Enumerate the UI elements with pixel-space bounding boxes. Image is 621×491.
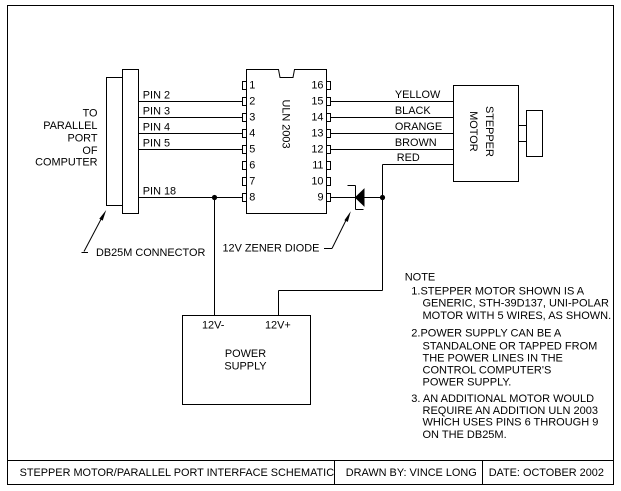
wire YELLOW U1 pin 15 to stepper motor	[331, 101, 454, 103]
PS1 label POWER SUPPLY	[224, 348, 267, 372]
U1 pin number 3	[249, 112, 255, 124]
svg-text:DRAWN BY: VINCE LONG: DRAWN BY: VINCE LONG	[346, 467, 477, 479]
diode D1 12V zener cathode bar	[348, 186, 364, 210]
wire label RED	[397, 152, 420, 164]
U1 pin 4 lead	[243, 130, 247, 138]
U1 pin number 11	[312, 160, 323, 172]
U1 pin 11 lead	[327, 162, 331, 170]
notes heading NOTE	[405, 271, 436, 283]
wire zener to junction node	[364, 197, 383, 199]
wire RED 12V+ to stepper motor	[383, 164, 454, 166]
U1 pin number 15	[311, 96, 323, 108]
U1 pin 3 lead	[243, 114, 247, 122]
junction node on PIN18 wire	[212, 195, 217, 200]
svg-text:11: 11	[312, 160, 323, 172]
svg-text:STEPPER: STEPPER	[483, 106, 495, 157]
wire 12V- drop from PIN18 to power supply	[214, 198, 216, 316]
svg-text:POWER SUPPLY.: POWER SUPPLY.	[423, 377, 512, 389]
U1 pin number 10	[311, 176, 323, 188]
U1 pin number 16	[311, 80, 323, 92]
svg-text:12: 12	[311, 144, 323, 156]
svg-text:PORT: PORT	[67, 133, 97, 145]
stepper motor M1 box	[454, 86, 519, 182]
wire PIN4 connector to U1 pin 4	[139, 133, 243, 135]
node label TO PARALLEL PORT OF COMPUTER	[35, 108, 98, 169]
wire 12V+ horizontal run	[279, 290, 383, 292]
svg-text:9: 9	[317, 192, 323, 204]
net label PIN 3	[143, 106, 170, 118]
svg-text:WHICH USES PINS 6 THROUGH 9: WHICH USES PINS 6 THROUGH 9	[423, 417, 599, 429]
leader arrow to zener diode	[324, 211, 351, 248]
wire BLACK U1 pin 14 to stepper motor	[331, 117, 454, 119]
wire label ORANGE	[395, 121, 442, 133]
svg-text:12V+: 12V+	[265, 320, 291, 332]
title block divider line	[8, 461, 614, 485]
svg-text:SUPPLY: SUPPLY	[224, 360, 267, 372]
note 2 line 2	[423, 340, 598, 352]
svg-text:RED: RED	[397, 152, 420, 164]
svg-text:MOTOR WITH 5 WIRES, AS SHOWN.: MOTOR WITH 5 WIRES, AS SHOWN.	[423, 310, 612, 322]
svg-text:POWER: POWER	[225, 348, 266, 360]
svg-text:ULN 2003: ULN 2003	[280, 99, 292, 148]
U1 pin number 14	[311, 112, 323, 124]
U1 pin number 12	[311, 144, 323, 156]
svg-text:10: 10	[311, 176, 323, 188]
svg-text:PIN 2: PIN 2	[143, 90, 170, 102]
svg-text:5: 5	[249, 144, 255, 156]
U1 value label ULN 2003	[280, 99, 292, 148]
title block drawn by	[346, 467, 477, 479]
U1 pin number 8	[249, 192, 255, 204]
svg-text:TO: TO	[83, 108, 98, 120]
svg-text:NOTE: NOTE	[405, 271, 436, 283]
U1 pin number 4	[249, 128, 255, 140]
net label PIN 18	[143, 185, 176, 197]
svg-text:MOTOR: MOTOR	[467, 111, 479, 151]
U1 pin 10 lead	[327, 178, 331, 186]
U1 pin number 6	[249, 160, 255, 172]
U1 pin number 9	[317, 192, 323, 204]
svg-text:ORANGE: ORANGE	[395, 121, 442, 133]
leader arrow to DB25M connector	[82, 210, 107, 253]
wire U1 pin 9 to zener anode	[331, 197, 356, 199]
svg-text:CONTROL COMPUTER'S: CONTROL COMPUTER'S	[423, 364, 552, 376]
label DB25M CONNECTOR	[96, 247, 205, 259]
svg-text:BROWN: BROWN	[395, 137, 437, 149]
wire PIN2 connector to U1 pin 2	[139, 101, 243, 103]
svg-text:PIN 5: PIN 5	[143, 138, 170, 150]
svg-text:4: 4	[249, 128, 255, 140]
U1 pin 13 lead	[327, 130, 331, 138]
svg-text:2.POWER SUPPLY CAN BE A: 2.POWER SUPPLY CAN BE A	[411, 328, 562, 340]
PS1 terminal label 12V+	[265, 320, 291, 332]
U1 pin 15 lead	[327, 98, 331, 106]
note 2 line 5	[423, 377, 512, 389]
svg-text:STEPPER MOTOR/PARALLEL PORT IN: STEPPER MOTOR/PARALLEL PORT INTERFACE SC…	[20, 467, 335, 479]
svg-text:DB25M CONNECTOR: DB25M CONNECTOR	[96, 247, 205, 259]
U1 pin number 13	[311, 128, 323, 140]
svg-text:8: 8	[249, 192, 255, 204]
diode D1 12V zener triangle	[356, 189, 365, 205]
PS1 terminal label 12V-	[202, 320, 225, 332]
U1 pin 1 lead	[243, 82, 247, 90]
svg-text:YELLOW: YELLOW	[395, 89, 441, 101]
svg-text:PARALLEL: PARALLEL	[43, 120, 97, 132]
svg-text:BLACK: BLACK	[395, 105, 431, 117]
svg-text:12V-: 12V-	[202, 320, 225, 332]
wire label BROWN	[395, 137, 437, 149]
svg-text:13: 13	[311, 128, 323, 140]
svg-text:PIN 4: PIN 4	[143, 122, 170, 134]
note 3 line 2	[423, 405, 598, 417]
wire 12V+ vertical riser to RED wire	[382, 165, 384, 291]
svg-text:16: 16	[311, 80, 323, 92]
title block schematic title	[20, 467, 335, 479]
U1 pin 7 lead	[243, 178, 247, 186]
wire label YELLOW	[395, 89, 441, 101]
svg-text:12V ZENER DIODE: 12V ZENER DIODE	[223, 243, 320, 255]
stepper motor shaft coupling lines	[519, 126, 527, 142]
svg-text:REQUIRE AN ADDITION ULN 2003: REQUIRE AN ADDITION ULN 2003	[423, 405, 598, 417]
connector J1 DB25M front shell	[123, 70, 139, 214]
wire label BLACK	[395, 105, 431, 117]
svg-text:COMPUTER: COMPUTER	[35, 157, 97, 169]
junction node zener / RED / 12V+	[380, 195, 385, 200]
svg-text:PIN 18: PIN 18	[143, 185, 176, 197]
svg-text:GENERIC, STH-39D137, UNI-POLAR: GENERIC, STH-39D137, UNI-POLAR	[423, 298, 609, 310]
U1 pin number 5	[249, 144, 255, 156]
wire ORANGE U1 pin 13 to stepper motor	[331, 133, 454, 135]
U1 pin 5 lead	[243, 146, 247, 154]
wire 12V+ drop to power supply	[278, 291, 280, 316]
U1 pin 9 lead	[327, 194, 331, 202]
wire BROWN U1 pin 12 to stepper motor	[331, 149, 454, 151]
label 12V ZENER DIODE	[223, 243, 320, 255]
net label PIN 4	[143, 122, 170, 134]
note 1 line 2	[423, 298, 609, 310]
note 3 line 4	[423, 429, 507, 441]
U1 pin 12 lead	[327, 146, 331, 154]
note 3 line 3	[423, 417, 599, 429]
U1 pin 2 lead	[243, 98, 247, 106]
note 2 line 4	[423, 364, 552, 376]
note 1 line 3	[423, 310, 612, 322]
connector J1 DB25M back shell	[107, 78, 123, 206]
svg-text:ON THE DB25M.: ON THE DB25M.	[423, 429, 507, 441]
svg-text:PIN 3: PIN 3	[143, 106, 170, 118]
U1 pin number 2	[249, 96, 255, 108]
svg-text:OF: OF	[82, 145, 97, 157]
wire PIN5 connector to U1 pin 5	[139, 149, 243, 151]
U1 pin 8 lead	[243, 194, 247, 202]
M1 label STEPPER MOTOR	[467, 106, 495, 157]
wire PIN18 connector to U1 pin 8	[139, 197, 243, 199]
svg-text:DATE: OCTOBER 2002: DATE: OCTOBER 2002	[489, 467, 604, 479]
U1 pin number 7	[249, 176, 255, 188]
note 3 line 1	[411, 393, 594, 405]
net label PIN 2	[143, 90, 170, 102]
note 2 line 1	[411, 328, 562, 340]
svg-text:15: 15	[311, 96, 323, 108]
svg-text:6: 6	[249, 160, 255, 172]
svg-text:1: 1	[249, 80, 255, 92]
U1 pin 6 lead	[243, 162, 247, 170]
svg-text:7: 7	[249, 176, 255, 188]
net label PIN 5	[143, 138, 170, 150]
note 2 line 3	[423, 352, 563, 364]
title block date	[489, 467, 604, 479]
svg-text:3: 3	[249, 112, 255, 124]
wire PIN3 connector to U1 pin 3	[139, 117, 243, 119]
note 1 line 1	[411, 285, 584, 297]
power supply PS1 box	[183, 316, 311, 405]
U1 pin 14 lead	[327, 114, 331, 122]
svg-text:2: 2	[249, 96, 255, 108]
op-amp U1 ULN2003 body outline with notch	[247, 70, 327, 214]
svg-text:14: 14	[311, 112, 323, 124]
U1 pin 16 lead	[327, 82, 331, 90]
svg-text:STANDALONE OR TAPPED FROM: STANDALONE OR TAPPED FROM	[423, 340, 598, 352]
svg-text:3. AN ADDITIONAL MOTOR WOULD: 3. AN ADDITIONAL MOTOR WOULD	[411, 393, 594, 405]
U1 pin number 1	[249, 80, 255, 92]
svg-text:1.STEPPER MOTOR SHOWN IS A: 1.STEPPER MOTOR SHOWN IS A	[411, 285, 584, 297]
svg-text:THE POWER LINES IN THE: THE POWER LINES IN THE	[423, 352, 563, 364]
stepper motor shaft block	[527, 111, 543, 157]
